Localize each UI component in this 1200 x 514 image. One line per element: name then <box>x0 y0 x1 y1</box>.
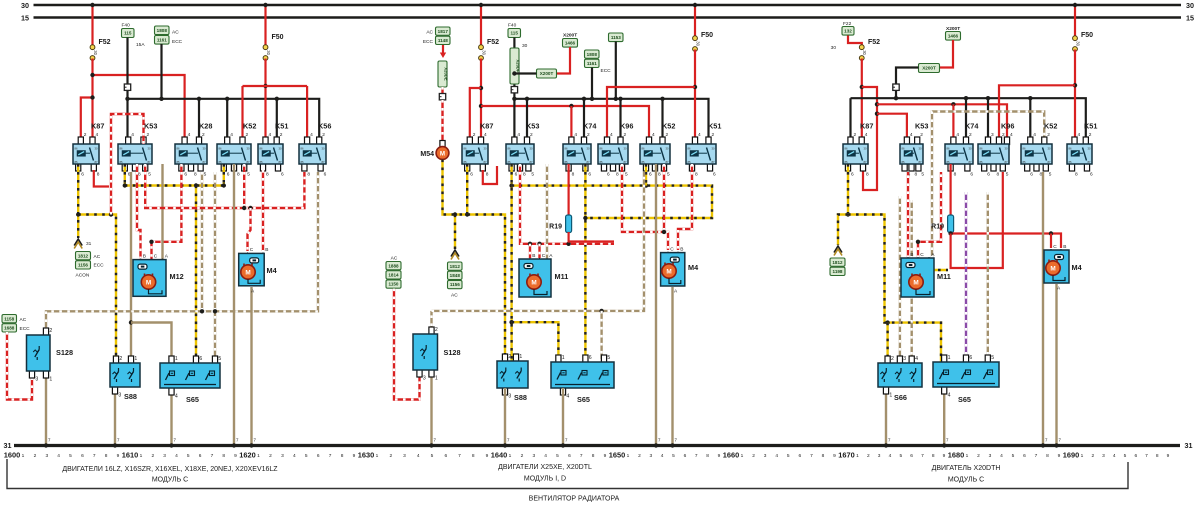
svg-text:87: 87 <box>247 160 250 164</box>
svg-text:6: 6 <box>1134 453 1137 459</box>
svg-text:6: 6 <box>227 172 230 178</box>
svg-text:1: 1 <box>741 453 744 459</box>
svg-text:87: 87 <box>1048 160 1051 164</box>
svg-text:2: 2 <box>322 132 325 138</box>
svg-text:8: 8 <box>222 453 225 459</box>
svg-text:AC: AC <box>451 293 458 299</box>
svg-text:6: 6 <box>81 172 84 178</box>
svg-text:30: 30 <box>484 146 487 150</box>
svg-text:30: 30 <box>522 43 528 49</box>
svg-text:2: 2 <box>521 453 524 459</box>
svg-text:9: 9 <box>943 453 946 459</box>
svg-text:4: 4 <box>131 132 134 138</box>
svg-text:1814: 1814 <box>388 273 399 278</box>
svg-text:8: 8 <box>997 172 1000 178</box>
svg-text:6: 6 <box>851 172 854 178</box>
svg-text:31: 31 <box>4 441 12 450</box>
svg-text:4: 4 <box>484 132 487 138</box>
svg-text:85: 85 <box>1069 160 1072 164</box>
svg-text:2: 2 <box>587 132 590 138</box>
svg-text:1812: 1812 <box>450 264 461 269</box>
svg-text:6: 6 <box>649 172 652 178</box>
svg-text:30: 30 <box>695 41 700 46</box>
svg-text:2: 2 <box>1089 132 1092 138</box>
svg-text:1: 1 <box>627 453 630 459</box>
svg-text:1688: 1688 <box>4 326 15 331</box>
svg-text:3: 3 <box>878 453 881 459</box>
svg-text:30: 30 <box>481 50 486 55</box>
svg-text:1150: 1150 <box>389 282 399 287</box>
svg-text:M: M <box>146 279 151 286</box>
svg-text:8: 8 <box>341 453 344 459</box>
svg-text:R19: R19 <box>549 224 562 231</box>
svg-text:85: 85 <box>120 160 123 164</box>
svg-text:30: 30 <box>1048 146 1051 150</box>
svg-text:6: 6 <box>281 172 284 178</box>
svg-text:C: C <box>542 253 546 259</box>
svg-text:87: 87 <box>624 160 627 164</box>
svg-text:31: 31 <box>86 241 92 247</box>
svg-text:86: 86 <box>980 146 983 150</box>
svg-text:МОДУЛЬ С: МОДУЛЬ С <box>948 477 984 484</box>
svg-text:1812: 1812 <box>832 260 843 265</box>
svg-text:5: 5 <box>899 453 902 459</box>
svg-text:4: 4 <box>652 132 655 138</box>
svg-text:МОДУЛЬ I, D: МОДУЛЬ I, D <box>524 476 566 483</box>
svg-text:R19: R19 <box>931 224 944 231</box>
svg-text:6: 6 <box>444 453 447 459</box>
svg-text:8: 8 <box>472 453 475 459</box>
svg-text:AC: AC <box>426 30 433 36</box>
svg-text:6: 6 <box>607 172 610 178</box>
svg-text:6: 6 <box>589 355 592 361</box>
svg-text:85: 85 <box>301 160 304 164</box>
svg-text:S88: S88 <box>124 392 137 401</box>
svg-text:K52: K52 <box>1044 122 1057 131</box>
svg-text:1148: 1148 <box>438 38 448 43</box>
svg-text:6: 6 <box>1090 172 1093 178</box>
svg-text:85: 85 <box>845 160 848 164</box>
svg-text:2: 2 <box>147 132 150 138</box>
svg-text:6: 6 <box>987 172 990 178</box>
svg-text:87: 87 <box>1088 160 1091 164</box>
svg-text:2: 2 <box>969 132 972 138</box>
svg-text:6: 6 <box>970 172 973 178</box>
svg-text:30: 30 <box>95 146 98 150</box>
svg-text:86: 86 <box>688 146 691 150</box>
svg-text:1: 1 <box>257 453 260 459</box>
svg-text:1: 1 <box>134 356 137 362</box>
svg-text:1156: 1156 <box>78 263 88 268</box>
svg-text:1: 1 <box>948 355 951 361</box>
svg-text:4: 4 <box>269 132 272 138</box>
svg-text:1812: 1812 <box>78 253 89 258</box>
svg-text:2: 2 <box>473 132 476 138</box>
svg-text:8: 8 <box>194 172 197 178</box>
svg-text:8: 8 <box>1156 453 1159 459</box>
svg-text:C: C <box>250 247 254 253</box>
svg-text:4: 4 <box>865 132 868 138</box>
svg-text:30: 30 <box>93 50 98 55</box>
svg-text:C: C <box>670 246 674 252</box>
svg-text:1640: 1640 <box>491 451 507 460</box>
svg-text:2: 2 <box>920 132 923 138</box>
svg-text:2: 2 <box>84 132 87 138</box>
svg-text:ДВИГАТЕЛИ X25XE, X20DTL: ДВИГАТЕЛИ X25XE, X20DTL <box>498 464 592 471</box>
svg-text:86: 86 <box>845 146 848 150</box>
svg-text:ECC: ECC <box>94 263 105 269</box>
svg-text:85: 85 <box>1023 160 1026 164</box>
svg-text:87: 87 <box>279 160 282 164</box>
svg-text:30: 30 <box>1186 1 1194 10</box>
svg-text:86: 86 <box>75 146 78 150</box>
svg-text:1: 1 <box>1081 453 1084 459</box>
svg-text:9: 9 <box>117 453 120 459</box>
svg-text:86: 86 <box>565 146 568 150</box>
svg-text:F52: F52 <box>99 39 111 46</box>
svg-text:2: 2 <box>891 356 894 362</box>
svg-text:7: 7 <box>211 453 214 459</box>
svg-text:5: 5 <box>1049 172 1052 178</box>
svg-text:30: 30 <box>1088 146 1091 150</box>
svg-text:85: 85 <box>75 160 78 164</box>
svg-text:2: 2 <box>1047 132 1050 138</box>
svg-text:86: 86 <box>947 146 950 150</box>
svg-text:M4: M4 <box>1072 263 1083 272</box>
svg-text:2: 2 <box>530 132 533 138</box>
svg-text:X200T: X200T <box>922 66 936 71</box>
svg-text:30: 30 <box>203 146 206 150</box>
svg-text:C: C <box>920 252 924 258</box>
svg-text:86: 86 <box>1069 146 1072 150</box>
svg-text:8: 8 <box>572 172 575 178</box>
svg-text:7: 7 <box>580 453 583 459</box>
svg-text:8: 8 <box>307 172 310 178</box>
svg-text:30: 30 <box>148 146 151 150</box>
svg-text:K87: K87 <box>480 122 493 131</box>
svg-text:3: 3 <box>423 376 426 382</box>
svg-text:5: 5 <box>625 172 628 178</box>
svg-text:4: 4 <box>948 393 951 399</box>
svg-text:30: 30 <box>712 146 715 150</box>
svg-text:3: 3 <box>35 377 38 383</box>
svg-text:1817: 1817 <box>438 29 449 34</box>
svg-text:F50: F50 <box>272 34 284 41</box>
svg-text:30: 30 <box>831 45 837 51</box>
svg-text:5: 5 <box>672 453 675 459</box>
svg-text:1198: 1198 <box>833 269 843 274</box>
svg-text:1660: 1660 <box>723 451 739 460</box>
svg-text:ACON: ACON <box>76 273 90 279</box>
svg-text:30: 30 <box>919 146 922 150</box>
svg-text:4: 4 <box>544 453 547 459</box>
svg-text:8: 8 <box>523 172 526 178</box>
svg-text:8: 8 <box>237 172 240 178</box>
svg-text:1690: 1690 <box>1063 451 1079 460</box>
svg-text:6: 6 <box>568 453 571 459</box>
svg-text:K96: K96 <box>620 122 633 131</box>
svg-text:K74: K74 <box>965 122 979 131</box>
svg-text:4: 4 <box>175 394 178 400</box>
svg-text:8: 8 <box>915 172 918 178</box>
svg-text:9: 9 <box>234 453 237 459</box>
svg-text:M4: M4 <box>688 263 699 272</box>
svg-text:1: 1 <box>562 355 565 361</box>
svg-text:4: 4 <box>188 132 191 138</box>
svg-text:2: 2 <box>638 453 641 459</box>
svg-text:K53: K53 <box>915 122 928 131</box>
svg-text:8: 8 <box>138 172 141 178</box>
svg-text:3: 3 <box>163 453 166 459</box>
svg-text:85: 85 <box>642 160 645 164</box>
svg-text:30: 30 <box>247 146 250 150</box>
svg-text:МОДУЛЬ С: МОДУЛЬ С <box>152 477 188 484</box>
svg-text:1600: 1600 <box>4 451 20 460</box>
svg-text:30: 30 <box>666 146 669 150</box>
svg-text:8: 8 <box>695 172 698 178</box>
svg-text:8: 8 <box>97 172 100 178</box>
svg-text:AC: AC <box>94 254 101 260</box>
svg-text:6: 6 <box>184 172 187 178</box>
svg-text:2: 2 <box>280 132 283 138</box>
svg-text:30: 30 <box>1005 146 1008 150</box>
svg-text:85: 85 <box>688 160 691 164</box>
svg-text:AC: AC <box>391 256 398 262</box>
svg-text:1: 1 <box>435 376 438 382</box>
svg-text:86: 86 <box>219 146 222 150</box>
svg-text:2: 2 <box>752 453 755 459</box>
svg-text:M11: M11 <box>555 272 569 281</box>
svg-text:86: 86 <box>600 146 603 150</box>
svg-text:1620: 1620 <box>239 451 255 460</box>
svg-text:4: 4 <box>230 132 233 138</box>
svg-text:85: 85 <box>219 160 222 164</box>
svg-text:8: 8 <box>932 453 935 459</box>
svg-text:3: 3 <box>45 453 48 459</box>
svg-text:1: 1 <box>509 453 512 459</box>
svg-text:2: 2 <box>435 327 438 333</box>
svg-text:15A: 15A <box>136 42 145 48</box>
svg-text:X200T: X200T <box>563 33 577 39</box>
svg-text:1: 1 <box>175 356 178 362</box>
svg-text:AC: AC <box>20 317 27 323</box>
svg-text:ДВИГАТЕЛЬ X20DTH: ДВИГАТЕЛЬ X20DTH <box>932 465 1001 472</box>
svg-text:F52: F52 <box>868 39 880 46</box>
svg-text:30: 30 <box>21 1 29 10</box>
svg-text:115: 115 <box>510 31 518 36</box>
svg-text:86: 86 <box>301 146 304 150</box>
svg-text:8: 8 <box>706 453 709 459</box>
svg-text:S65: S65 <box>186 395 199 404</box>
svg-text:6: 6 <box>199 356 202 362</box>
svg-text:5: 5 <box>69 453 72 459</box>
svg-text:15: 15 <box>1186 14 1194 23</box>
svg-text:85: 85 <box>508 160 511 164</box>
svg-text:1: 1 <box>856 453 859 459</box>
svg-text:1: 1 <box>376 453 379 459</box>
svg-text:30: 30 <box>279 146 282 150</box>
svg-text:1466: 1466 <box>948 34 959 39</box>
svg-text:K96: K96 <box>1001 122 1014 131</box>
svg-text:4: 4 <box>1078 132 1081 138</box>
svg-text:M: M <box>531 279 536 286</box>
svg-text:4: 4 <box>1010 132 1013 138</box>
svg-text:6: 6 <box>713 172 716 178</box>
svg-text:86: 86 <box>464 146 467 150</box>
svg-text:B: B <box>1063 244 1066 250</box>
svg-text:1: 1 <box>519 354 522 360</box>
svg-text:87: 87 <box>148 160 151 164</box>
svg-text:2: 2 <box>624 132 627 138</box>
svg-text:86: 86 <box>260 146 263 150</box>
svg-text:3: 3 <box>532 453 535 459</box>
svg-text:2: 2 <box>977 453 980 459</box>
svg-text:87: 87 <box>712 160 715 164</box>
svg-text:1888: 1888 <box>388 263 399 268</box>
svg-text:F40: F40 <box>508 23 517 29</box>
svg-text:4: 4 <box>610 132 613 138</box>
svg-text:1: 1 <box>49 377 52 383</box>
svg-text:4: 4 <box>175 453 178 459</box>
svg-text:7: 7 <box>329 453 332 459</box>
svg-text:K87: K87 <box>91 122 104 131</box>
svg-text:85: 85 <box>464 160 467 164</box>
svg-text:6: 6 <box>470 172 473 178</box>
svg-text:X20DE: X20DE <box>444 67 449 80</box>
svg-text:8: 8 <box>486 172 489 178</box>
svg-text:8: 8 <box>616 172 619 178</box>
svg-text:5: 5 <box>667 172 670 178</box>
svg-text:8: 8 <box>822 453 825 459</box>
svg-text:M: M <box>440 150 445 157</box>
svg-text:30: 30 <box>864 146 867 150</box>
svg-text:4: 4 <box>1000 453 1003 459</box>
svg-text:5: 5 <box>921 172 924 178</box>
svg-text:87: 87 <box>1005 160 1008 164</box>
svg-text:4: 4 <box>57 453 60 459</box>
svg-text:9: 9 <box>604 453 607 459</box>
svg-text:87: 87 <box>530 160 533 164</box>
svg-text:30: 30 <box>862 50 867 55</box>
svg-text:7: 7 <box>1035 453 1038 459</box>
svg-text:6: 6 <box>684 453 687 459</box>
svg-text:87: 87 <box>95 160 98 164</box>
svg-text:86: 86 <box>642 146 645 150</box>
svg-text:8: 8 <box>1046 453 1049 459</box>
svg-text:4: 4 <box>915 356 918 362</box>
svg-text:85: 85 <box>947 160 950 164</box>
svg-text:3: 3 <box>281 453 284 459</box>
svg-text:B: B <box>910 252 913 258</box>
svg-text:2: 2 <box>867 453 870 459</box>
svg-text:6: 6 <box>969 355 972 361</box>
svg-text:85: 85 <box>600 160 603 164</box>
svg-text:4: 4 <box>1033 132 1036 138</box>
svg-text:5: 5 <box>431 453 434 459</box>
svg-text:1156: 1156 <box>450 282 460 287</box>
svg-text:M: M <box>666 268 671 275</box>
svg-text:1: 1 <box>966 453 969 459</box>
svg-text:1848: 1848 <box>450 273 461 278</box>
svg-text:6: 6 <box>1030 172 1033 178</box>
svg-text:8: 8 <box>266 172 269 178</box>
svg-text:1: 1 <box>22 453 25 459</box>
svg-text:4: 4 <box>417 453 420 459</box>
svg-text:86: 86 <box>508 146 511 150</box>
svg-text:K87: K87 <box>860 122 873 131</box>
svg-text:4: 4 <box>775 453 778 459</box>
svg-text:1153: 1153 <box>611 35 621 40</box>
svg-text:7: 7 <box>458 453 461 459</box>
svg-text:ECC: ECC <box>601 68 612 74</box>
svg-text:8: 8 <box>1075 172 1078 178</box>
svg-text:2: 2 <box>666 132 669 138</box>
svg-text:1: 1 <box>889 393 892 399</box>
svg-text:87: 87 <box>919 160 922 164</box>
svg-text:4: 4 <box>1113 453 1116 459</box>
svg-text:30: 30 <box>266 50 271 55</box>
svg-text:7: 7 <box>695 453 698 459</box>
svg-text:K53: K53 <box>526 122 539 131</box>
svg-text:3: 3 <box>903 356 906 362</box>
svg-text:86: 86 <box>120 146 123 150</box>
svg-text:85: 85 <box>565 160 568 164</box>
svg-text:K53: K53 <box>144 122 157 131</box>
svg-text:M4: M4 <box>267 266 278 275</box>
svg-text:K51: K51 <box>1084 122 1097 131</box>
svg-text:1808: 1808 <box>157 28 168 33</box>
svg-text:6: 6 <box>317 453 320 459</box>
svg-text:6: 6 <box>81 453 84 459</box>
svg-text:4: 4 <box>517 132 520 138</box>
svg-text:30: 30 <box>1075 41 1080 46</box>
svg-text:M11: M11 <box>937 272 951 281</box>
svg-text:4: 4 <box>293 453 296 459</box>
svg-text:31: 31 <box>1185 441 1193 450</box>
svg-text:8: 8 <box>105 453 108 459</box>
svg-text:S65: S65 <box>577 395 590 404</box>
svg-text:S128: S128 <box>56 348 73 357</box>
svg-text:7: 7 <box>93 453 96 459</box>
svg-text:5: 5 <box>531 172 534 178</box>
svg-text:6: 6 <box>798 453 801 459</box>
svg-text:2: 2 <box>34 453 37 459</box>
svg-text:1466: 1466 <box>565 41 576 46</box>
svg-text:2: 2 <box>202 132 205 138</box>
svg-text:M54: M54 <box>420 151 434 158</box>
svg-text:8: 8 <box>592 453 595 459</box>
svg-text:6: 6 <box>588 172 591 178</box>
svg-text:3: 3 <box>764 453 767 459</box>
svg-text:K51: K51 <box>708 122 721 131</box>
svg-text:1808: 1808 <box>587 52 598 57</box>
svg-text:6: 6 <box>910 453 913 459</box>
svg-text:K74: K74 <box>583 122 597 131</box>
svg-text:C: C <box>1053 244 1057 250</box>
svg-text:8: 8 <box>658 172 661 178</box>
svg-text:3: 3 <box>649 453 652 459</box>
svg-text:30: 30 <box>587 146 590 150</box>
svg-text:9: 9 <box>353 453 356 459</box>
svg-text:86: 86 <box>1023 146 1026 150</box>
svg-text:1: 1 <box>140 453 143 459</box>
svg-text:ECC: ECC <box>172 39 183 45</box>
svg-text:8: 8 <box>866 172 869 178</box>
svg-text:5: 5 <box>148 172 151 178</box>
svg-text:5: 5 <box>247 172 250 178</box>
svg-text:ECC: ECC <box>20 326 31 332</box>
svg-text:1161: 1161 <box>157 38 167 43</box>
